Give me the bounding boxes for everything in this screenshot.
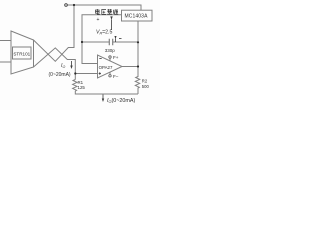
svg-text:VR=2.5: VR=2.5 [96, 30, 112, 36]
svg-text:F−: F− [113, 74, 119, 79]
svg-text:R2: R2 [142, 79, 148, 84]
svg-text:F+: F+ [113, 55, 119, 60]
svg-text:(0~20mA): (0~20mA) [49, 72, 71, 78]
svg-text:+: + [97, 17, 100, 23]
svg-text:125: 125 [78, 85, 86, 90]
svg-text:STR101: STR101 [13, 51, 30, 56]
svg-text:OPA27: OPA27 [99, 65, 113, 70]
svg-text:500: 500 [142, 84, 150, 89]
svg-text:IO(0~20mA): IO(0~20mA) [107, 98, 135, 104]
svg-text:330p: 330p [105, 48, 116, 53]
svg-text:MC1403A: MC1403A [124, 14, 148, 20]
